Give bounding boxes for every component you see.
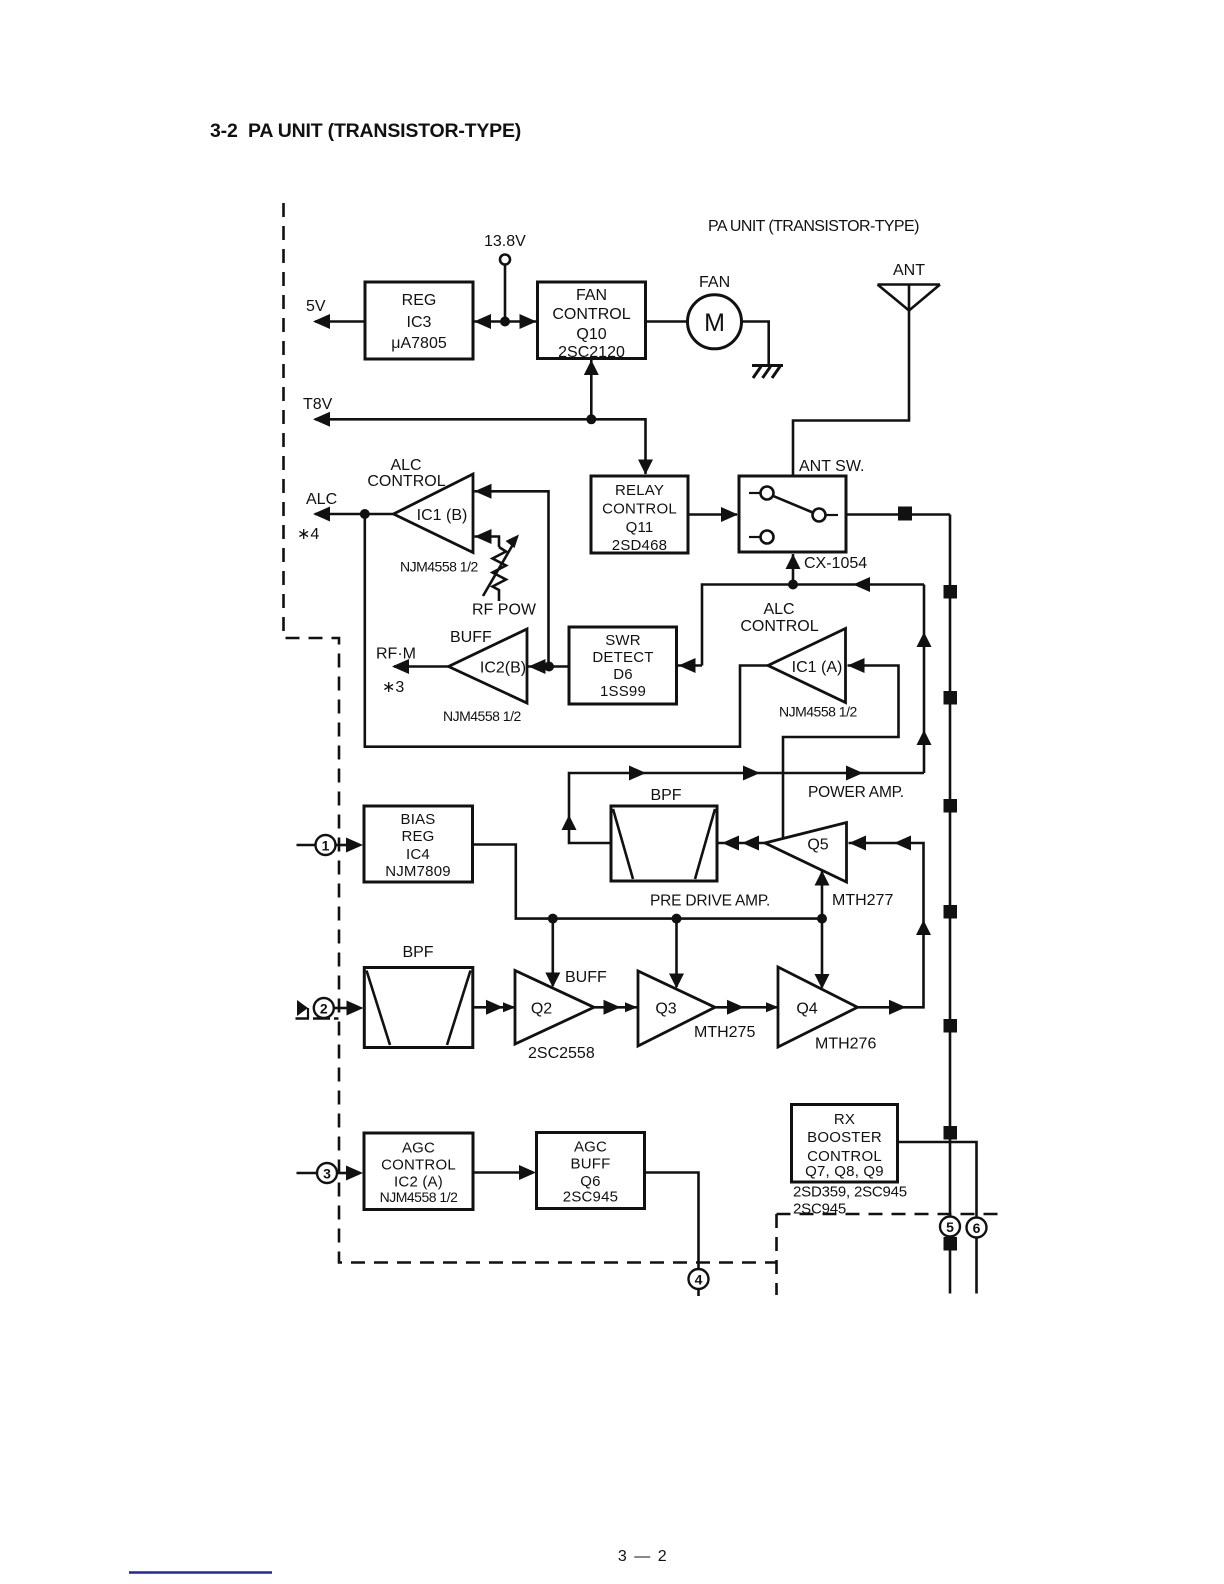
svg-text:CX-1054: CX-1054 — [804, 555, 867, 572]
op-amp IC1 (B) — [394, 474, 474, 553]
svg-text:BUFF: BUFF — [571, 1156, 611, 1173]
svg-text:DETECT: DETECT — [592, 649, 653, 666]
node square below 5 — [944, 1237, 958, 1251]
svg-text:Q5: Q5 — [807, 837, 828, 854]
svg-text:BUFF: BUFF — [450, 629, 492, 646]
wire AGC CONTROL to AGC BUFF (arrow right) — [473, 1165, 536, 1180]
svg-text:5: 5 — [946, 1219, 954, 1235]
svg-text:3: 3 — [323, 1166, 331, 1182]
boundary dashed line left — [284, 203, 1005, 1295]
svg-text:CONTROL: CONTROL — [552, 306, 630, 323]
wire ANT SW output to right bus — [846, 513, 950, 516]
block REG IC3 uA7805 — [365, 282, 473, 359]
svg-text:3 — 2: 3 — 2 — [618, 1548, 668, 1565]
svg-text:BIAS: BIAS — [401, 811, 436, 828]
svg-text:Q7, Q8, Q9: Q7, Q8, Q9 — [805, 1163, 884, 1180]
amplifier Q3 MTH275 — [638, 971, 755, 1046]
bus main right vertical — [949, 515, 952, 1294]
svg-text:2SC2558: 2SC2558 — [528, 1045, 595, 1062]
svg-text:2SC945: 2SC945 — [563, 1189, 618, 1206]
block SWR DETECT D6 1SS99 — [569, 627, 677, 704]
junction ALC node — [360, 509, 370, 519]
wire RELAY CONTROL to ANT SW (arrow right) — [688, 507, 738, 522]
svg-text:IC2(B): IC2(B) — [480, 660, 526, 677]
wire BPF1 to riser y773 (three right arrows) — [562, 766, 925, 844]
block RX BOOSTER CONTROL Q7 Q8 Q9 — [792, 1105, 898, 1183]
amplifier Q5 MTH277 — [765, 823, 893, 910]
svg-text:SWR: SWR — [605, 632, 641, 649]
node square bus y806 — [944, 799, 958, 813]
wire IC1(A) input from Q5 sample (arrow left) — [783, 658, 899, 838]
svg-text:CONTROL: CONTROL — [367, 473, 445, 490]
block AGC BUFF Q6 2SC945 — [537, 1133, 645, 1209]
node output 5 — [940, 1217, 960, 1237]
wire IC1(B) lower input from RF POW (arrow left) — [475, 529, 500, 547]
svg-text:5V: 5V — [306, 298, 326, 315]
svg-text:PA UNIT (TRANSISTOR-TYPE): PA UNIT (TRANSISTOR-TYPE) — [708, 218, 919, 235]
node input 1 — [297, 835, 364, 855]
svg-text:POWER AMP.: POWER AMP. — [808, 784, 904, 801]
svg-text:IC1 (B): IC1 (B) — [417, 507, 468, 524]
label ALC CONTROL (IC1 B) — [367, 457, 445, 490]
svg-text:NJM4558 1/2: NJM4558 1/2 — [400, 559, 478, 575]
svg-text:AGC: AGC — [402, 1140, 435, 1157]
svg-text:MTH277: MTH277 — [832, 892, 893, 909]
svg-text:Q6: Q6 — [580, 1173, 600, 1190]
node square bus y912 — [944, 905, 958, 919]
svg-text:2SC945: 2SC945 — [793, 1201, 846, 1218]
wire ALC feedback loop IC1(A) out to ALC node — [365, 514, 768, 747]
svg-text:BOOSTER: BOOSTER — [807, 1129, 882, 1146]
svg-text:NJM4558 1/2: NJM4558 1/2 — [779, 704, 857, 720]
block RELAY CONTROL Q11 2SD468 — [591, 476, 688, 554]
filter BPF1 — [611, 787, 717, 881]
svg-text:RF·M: RF·M — [376, 646, 416, 663]
blue underline mark — [129, 1571, 272, 1573]
svg-text:BPF: BPF — [650, 787, 681, 804]
wire FAN CONTROL to motor — [646, 320, 689, 323]
svg-text:Q11: Q11 — [626, 519, 654, 536]
svg-text:μA7805: μA7805 — [391, 335, 447, 352]
svg-text:REG: REG — [401, 828, 434, 845]
junction bias Q3 — [672, 914, 682, 924]
node 13.8V supply terminal — [484, 233, 526, 265]
svg-text:1SS99: 1SS99 — [600, 683, 646, 700]
wire ANT to ANT SW — [793, 285, 909, 477]
wire RX BOOSTER output to node 6 line — [898, 1142, 977, 1294]
node square bus y698 — [944, 691, 958, 705]
wire motor to ground — [742, 322, 769, 365]
amplifier Q4 MTH276 — [778, 967, 876, 1053]
svg-text:∗3: ∗3 — [382, 679, 404, 696]
node 5V output — [306, 298, 365, 329]
svg-text:IC4: IC4 — [406, 846, 430, 863]
svg-text:Q10: Q10 — [576, 326, 606, 343]
svg-text:REG: REG — [402, 292, 437, 309]
wire AGC BUFF output down to node 4 — [645, 1173, 699, 1270]
wire BPF2 to Q2 (two right arrows) — [473, 1000, 516, 1015]
svg-text:2: 2 — [320, 1001, 328, 1017]
block BIAS REG IC4 NJM7809 — [364, 806, 473, 882]
junction bias Q4 — [817, 914, 827, 924]
svg-text:3-2 PA UNIT (TRANSISTOR-TYPE): 3-2 PA UNIT (TRANSISTOR-TYPE) — [210, 120, 521, 142]
svg-text:CONTROL: CONTROL — [740, 618, 818, 635]
op-amp IC1 (A) — [768, 629, 846, 703]
svg-text:2SC2120: 2SC2120 — [558, 344, 625, 361]
svg-text:D6: D6 — [613, 666, 633, 683]
svg-text:T8V: T8V — [303, 396, 333, 413]
wire riser BPF to sense line (two up arrows) — [917, 585, 932, 774]
svg-text:NJM4558 1/2: NJM4558 1/2 — [443, 708, 521, 724]
potentiometer RF POW — [472, 535, 537, 619]
svg-text:MTH275: MTH275 — [694, 1024, 755, 1041]
node RF·M output *3 — [376, 646, 449, 697]
svg-text:6: 6 — [973, 1220, 981, 1236]
label ALC CONTROL (IC1 A) — [740, 601, 818, 635]
svg-text:NJM7809: NJM7809 — [385, 863, 451, 880]
node ALC output *4 — [297, 491, 394, 543]
wire Q4 out up to Q5 input (arrows) — [849, 836, 932, 1015]
svg-text:IC3: IC3 — [407, 314, 432, 331]
svg-text:IC2 (A): IC2 (A) — [394, 1174, 443, 1191]
motor M (FAN) — [688, 274, 742, 349]
wire T8V rail (arrow left) — [303, 396, 653, 475]
block AGC CONTROL IC2 (A) NJM4558 1/2 — [364, 1133, 473, 1210]
svg-text:M: M — [704, 309, 725, 337]
svg-text:4: 4 — [695, 1272, 703, 1288]
wire sense into SWR DETECT (arrow left) — [678, 658, 702, 673]
node input 2 — [296, 998, 364, 1019]
wire 13.8V down to junction — [504, 265, 507, 322]
wire FAN CONTROL emitter down to T8V junction (arrow up) — [584, 360, 599, 419]
wire bias to Q5 bottom (arrow up) — [815, 871, 830, 919]
svg-text:Q4: Q4 — [796, 1001, 817, 1018]
wire SWR output to IC2(B) (arrow left) — [528, 659, 569, 674]
svg-text:BUFF: BUFF — [565, 969, 607, 986]
svg-text:IC1 (A): IC1 (A) — [792, 659, 843, 676]
antenna ANT — [878, 262, 941, 311]
svg-text:MTH276: MTH276 — [815, 1036, 876, 1053]
node input 3 — [297, 1163, 364, 1183]
node square on ANT SW output — [898, 507, 912, 521]
wire ANT SW bottom to sense junction (arrow up) — [786, 554, 801, 585]
svg-text:CONTROL: CONTROL — [381, 1157, 456, 1174]
svg-text:NJM4558 1/2: NJM4558 1/2 — [380, 1189, 458, 1205]
svg-text:FAN: FAN — [576, 287, 607, 304]
wire BIAS REG to bias rail — [473, 845, 823, 919]
junction bias Q2 — [548, 914, 558, 924]
svg-text:2SD359, 2SC945: 2SD359, 2SC945 — [793, 1184, 907, 1201]
junction 13.8V node — [500, 317, 510, 327]
svg-text:FAN: FAN — [699, 274, 730, 291]
wire bias down to Q2 (arrow down) — [545, 919, 560, 988]
junction sense node — [788, 580, 798, 590]
block FAN CONTROL Q10 2SC2120 — [538, 282, 646, 361]
svg-text:ALC: ALC — [763, 601, 794, 618]
wire Q2 to Q3 (two right arrows) — [594, 1000, 638, 1015]
svg-text:ANT SW.: ANT SW. — [799, 458, 865, 475]
svg-text:ALC: ALC — [390, 457, 421, 474]
node square bus y1026 — [944, 1019, 958, 1033]
svg-text:ALC: ALC — [306, 491, 337, 508]
ground — [752, 366, 783, 379]
svg-text:PRE DRIVE AMP.: PRE DRIVE AMP. — [650, 893, 770, 910]
svg-text:BPF: BPF — [402, 944, 433, 961]
junction T8V node — [586, 414, 596, 424]
svg-text:ANT: ANT — [893, 262, 925, 279]
svg-text:AGC: AGC — [574, 1139, 607, 1156]
wire junction to REG (arrow left) — [473, 314, 537, 329]
svg-text:RELAY: RELAY — [615, 482, 664, 499]
wire bias down to Q4 (arrow down) — [815, 919, 830, 989]
svg-text:RF POW: RF POW — [472, 602, 537, 619]
node square bus y592 — [944, 585, 958, 599]
wire IC1(B) top input from SWR node (arrow left) — [475, 484, 549, 667]
wire sense line y584 (arrow left) — [702, 577, 924, 666]
node output 4 — [689, 1269, 709, 1296]
svg-text:∗4: ∗4 — [297, 526, 319, 543]
svg-text:CONTROL: CONTROL — [602, 501, 677, 518]
relay ANT SW. box — [739, 458, 865, 552]
svg-text:13.8V: 13.8V — [484, 233, 526, 250]
svg-text:2SD468: 2SD468 — [612, 537, 667, 554]
op-amp IC2(B) — [449, 629, 528, 703]
wire Q5 out to BPF1 (two left arrows) — [717, 836, 765, 851]
filter BPF2 — [364, 944, 473, 1048]
svg-text:1: 1 — [322, 838, 330, 854]
wire bias down to Q3 (arrow down) — [669, 919, 684, 989]
junction IC2(B) input node — [544, 662, 554, 672]
svg-text:RX: RX — [834, 1111, 855, 1128]
amplifier Q2 2SC2558 — [515, 971, 595, 1063]
node output 6 — [967, 1218, 987, 1238]
node square bus y1133 — [944, 1126, 958, 1140]
svg-text:Q2: Q2 — [531, 1001, 552, 1018]
wire Q3 to Q4 (two right arrows) — [715, 1000, 779, 1015]
svg-text:Q3: Q3 — [655, 1001, 676, 1018]
